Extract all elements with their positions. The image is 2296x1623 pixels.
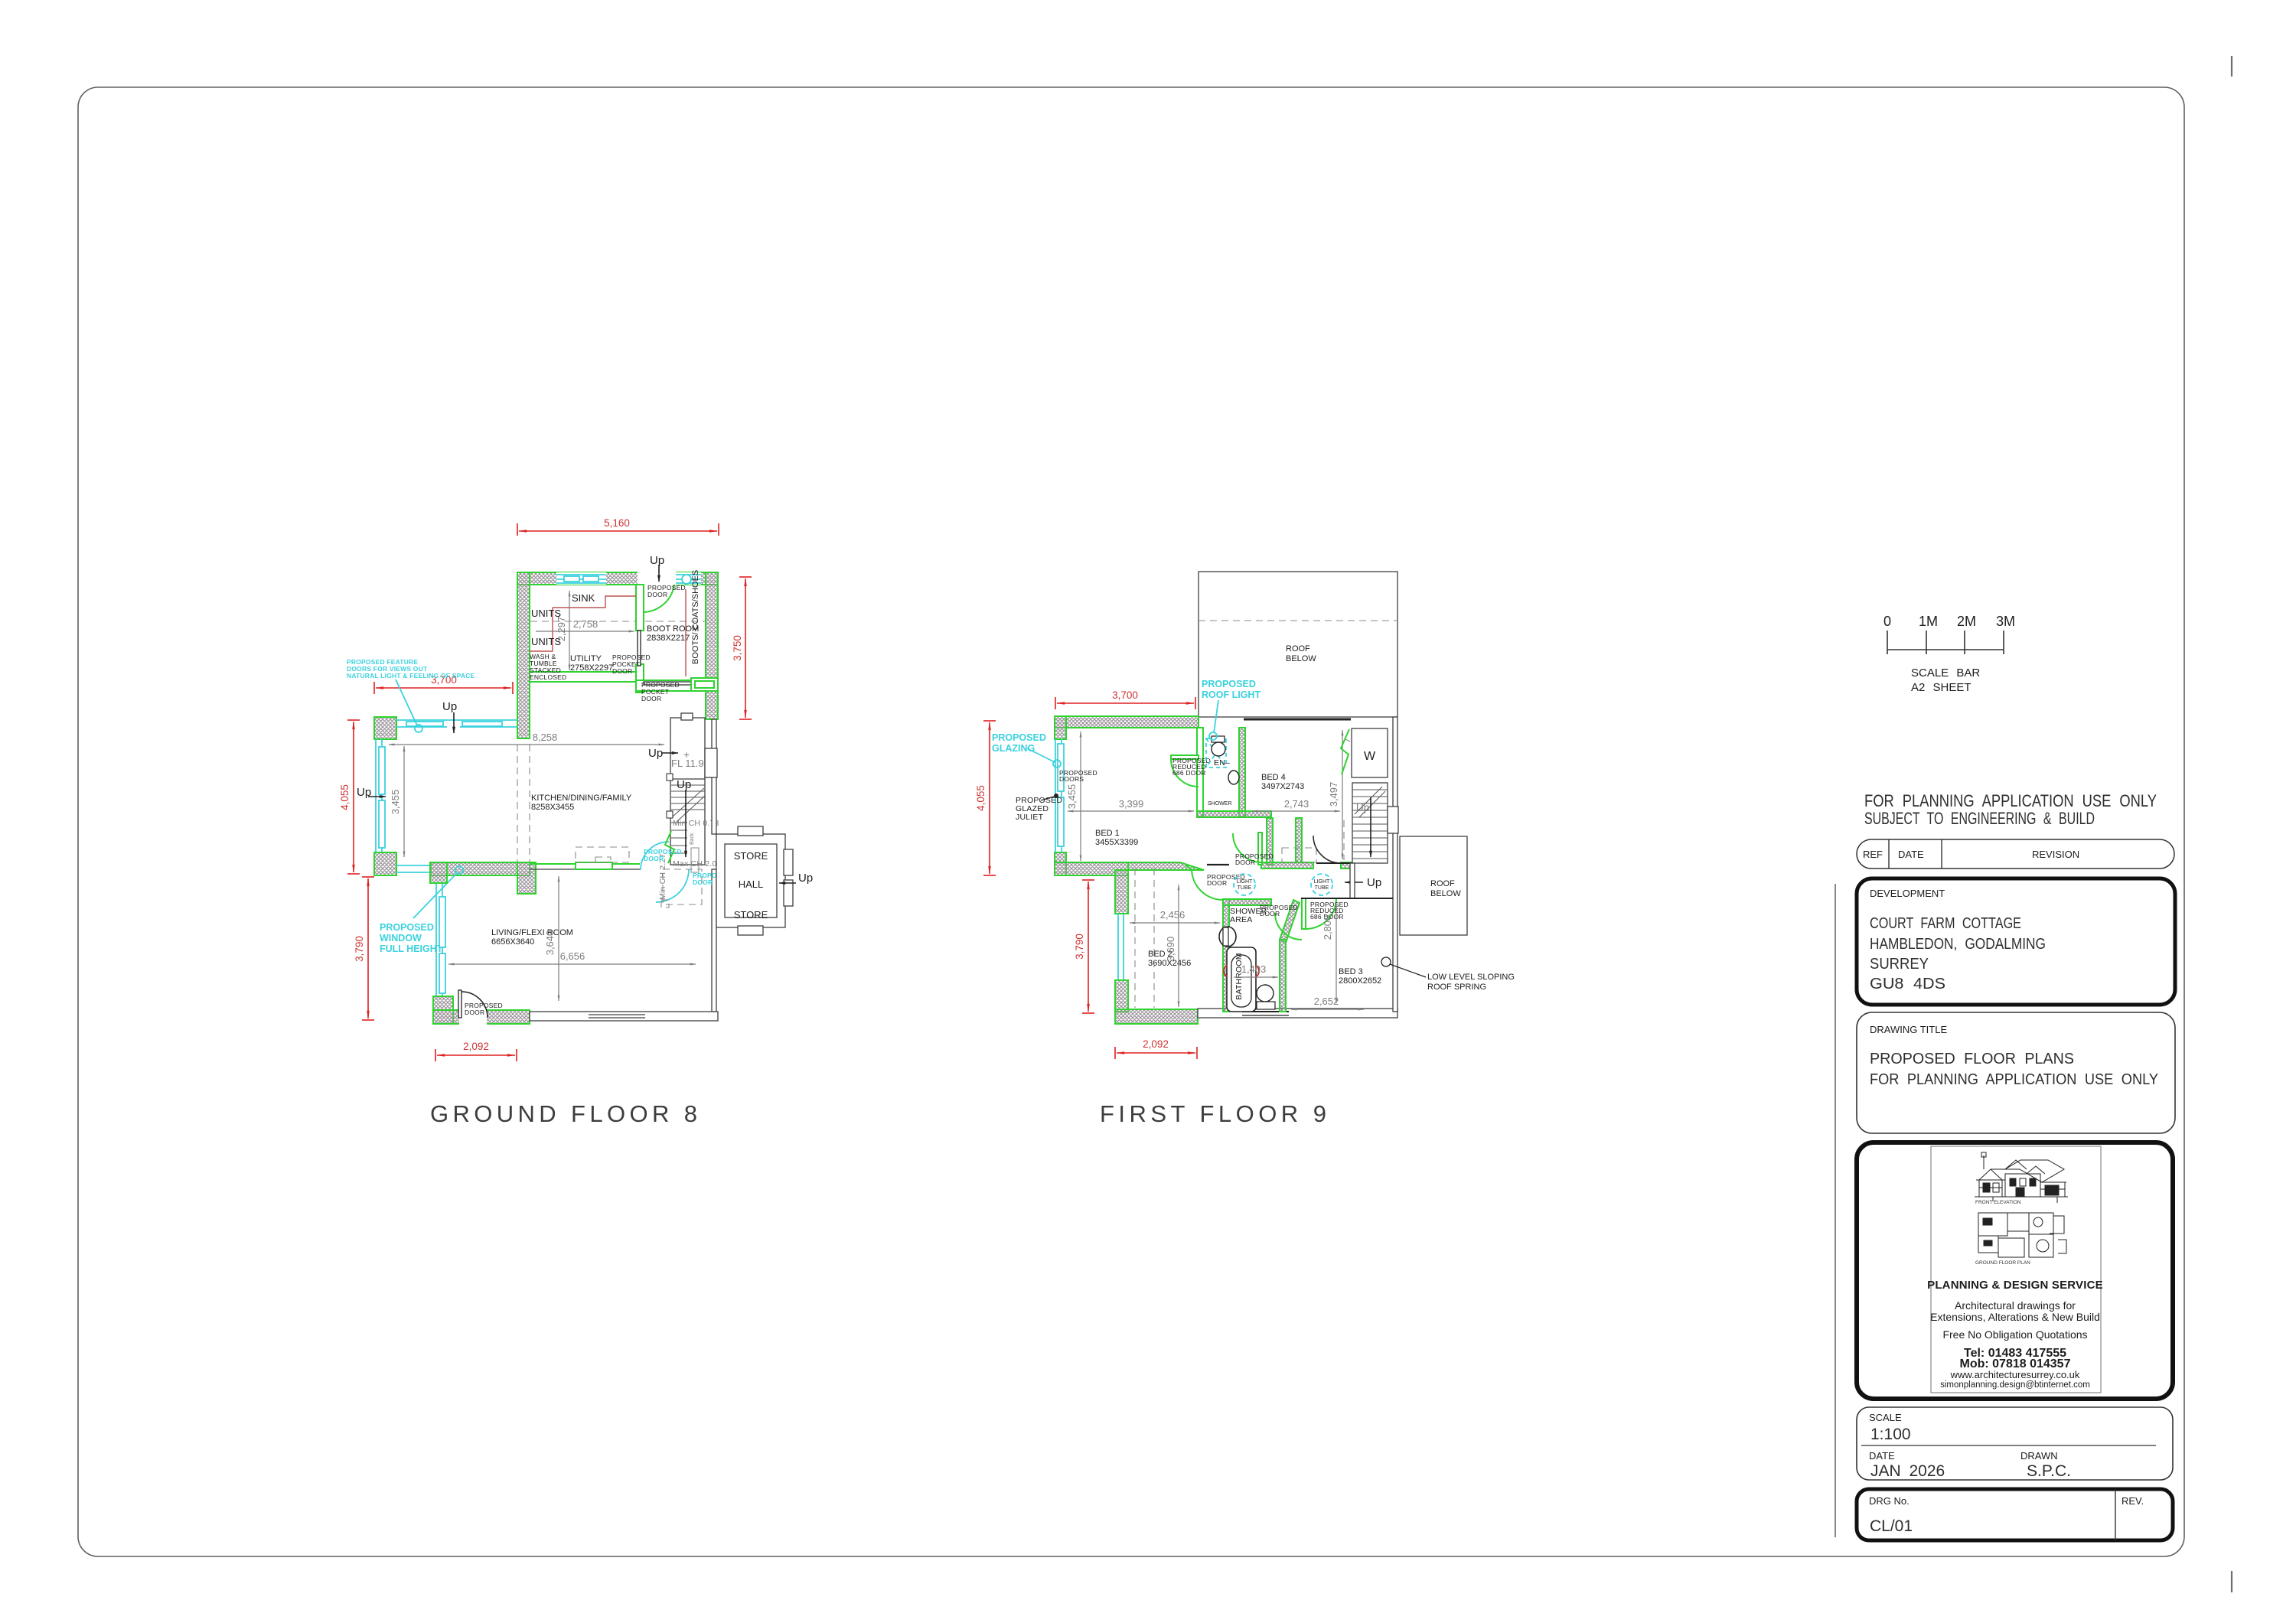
green zigzag door	[665, 831, 674, 863]
svg-text:REVISION: REVISION	[2032, 849, 2079, 860]
logo house elevation art	[1975, 1152, 2068, 1203]
en suite walls	[1197, 728, 1203, 816]
utility gray dims	[569, 591, 570, 670]
svg-text:Max CH 2.00: Max CH 2.00	[673, 859, 721, 869]
title block left rule	[1835, 884, 1836, 1537]
svg-text:Extensions, Alterations & New: Extensions, Alterations & New Build	[1930, 1311, 2100, 1323]
svg-text:SINK: SINK	[572, 592, 595, 604]
svg-text:Up: Up	[442, 700, 457, 713]
door bed2	[1192, 869, 1223, 900]
svg-text:3,399: 3,399	[1119, 798, 1144, 810]
red dim 2,092	[1115, 1047, 1197, 1059]
kitchen bottom wall green	[431, 862, 530, 875]
logo box	[1857, 1142, 2173, 1399]
svg-text:2,092: 2,092	[463, 1041, 489, 1052]
svg-text:simonplanning.design@btinterne: simonplanning.design@btinternet.com	[1940, 1380, 2090, 1390]
bed2 bottom wall	[1115, 1009, 1198, 1024]
svg-text:DRAWING TITLE: DRAWING TITLE	[1870, 1024, 1947, 1035]
living top wall thin	[530, 863, 640, 865]
svg-text:ROOF SPRING: ROOF SPRING	[1427, 983, 1486, 992]
svg-text:8258X3455: 8258X3455	[531, 803, 574, 812]
svg-text:ROOF: ROOF	[1430, 879, 1455, 888]
svg-text:PLANNING & DESIGN SERVICE: PLANNING & DESIGN SERVICE	[1927, 1279, 2103, 1292]
svg-text:4,055: 4,055	[975, 785, 987, 811]
door gap top wall	[638, 572, 676, 585]
living door	[458, 990, 461, 1018]
svg-text:LIGHT: LIGHT	[1314, 879, 1330, 885]
svg-text:Up: Up	[677, 778, 691, 791]
bed2 left wall upper	[1115, 870, 1128, 914]
svg-text:3497X2743: 3497X2743	[1261, 782, 1304, 791]
svg-text:LIVING/FLEXI ROOM: LIVING/FLEXI ROOM	[491, 928, 573, 937]
svg-text:3,455: 3,455	[390, 790, 401, 815]
dashed centreline across utility	[530, 621, 705, 622]
svg-text:1M: 1M	[1919, 614, 1938, 629]
svg-text:3,640: 3,640	[544, 930, 556, 956]
svg-text:HAMBLEDON, GODALMING: HAMBLEDON, GODALMING	[1870, 936, 2046, 953]
red counter lines utility	[530, 589, 686, 676]
revision bar	[1857, 839, 2174, 869]
svg-text:TUBE: TUBE	[1315, 885, 1329, 891]
svg-text:PROPOSED: PROPOSED	[992, 732, 1046, 743]
svg-text:ROOF LIGHT: ROOF LIGHT	[1202, 689, 1261, 700]
shower top wall	[1223, 899, 1271, 905]
drawing title box	[1857, 1012, 2175, 1133]
en suite door	[1171, 755, 1199, 759]
red dim 4,055	[983, 721, 996, 875]
svg-text:DOORS: DOORS	[1059, 775, 1084, 783]
svg-text:FRONT ELEVATION: FRONT ELEVATION	[1975, 1200, 2021, 1205]
svg-text:DOOR: DOOR	[612, 667, 632, 675]
svg-text:BED 3: BED 3	[1339, 967, 1363, 976]
corner tick bottom right	[2231, 1571, 2232, 1592]
svg-text:2,092: 2,092	[1143, 1038, 1169, 1050]
kitchen corner TL	[374, 717, 396, 739]
svg-text:3,497: 3,497	[1328, 782, 1339, 807]
cyan door lower	[656, 869, 689, 902]
svg-text:6656X3640: 6656X3640	[491, 937, 534, 947]
svg-text:LOW LEVEL SLOPING: LOW LEVEL SLOPING	[1427, 973, 1515, 982]
dashed projections in kitchen	[517, 745, 518, 862]
svg-text:DOOR: DOOR	[641, 695, 661, 702]
kitchen top window band	[396, 720, 517, 727]
stairwell	[670, 718, 705, 865]
svg-text:3M: 3M	[1996, 614, 2015, 629]
svg-text:DOOR: DOOR	[693, 878, 713, 886]
svg-text:DOOR: DOOR	[644, 855, 664, 862]
svg-text:DOOR: DOOR	[1235, 859, 1255, 866]
svg-text:2800X2652: 2800X2652	[1339, 976, 1381, 986]
red dim 3,790	[1082, 880, 1094, 1013]
bed1 left glazing	[1055, 716, 1066, 739]
svg-text:3,790: 3,790	[1074, 934, 1085, 960]
svg-text:3455X3399: 3455X3399	[1095, 838, 1138, 847]
svg-text:0: 0	[1883, 614, 1891, 629]
svg-text:2,800: 2,800	[1322, 915, 1333, 940]
svg-text:DRAWN: DRAWN	[2020, 1450, 2058, 1462]
en suite fixtures	[1206, 738, 1226, 768]
landing walls	[1316, 862, 1353, 864]
svg-text:REF: REF	[1863, 849, 1883, 860]
svg-text:NATURAL LIGHT & FEELING OF SPA: NATURAL LIGHT & FEELING OF SPACE	[347, 672, 475, 680]
svg-text:Up: Up	[648, 747, 663, 760]
svg-text:SUBJECT TO ENGINEERING & BUILD: SUBJECT TO ENGINEERING & BUILD	[1864, 809, 2095, 828]
svg-text:Up: Up	[650, 554, 664, 567]
svg-text:2,456: 2,456	[1160, 909, 1186, 921]
svg-text:SHOWER: SHOWER	[1208, 801, 1232, 807]
wall right of stairs	[712, 719, 716, 834]
roof below top rect	[1199, 572, 1397, 717]
svg-text:STORE: STORE	[734, 850, 768, 862]
svg-text:BOOTS/ COATS/SHOES: BOOTS/ COATS/SHOES	[691, 570, 700, 664]
top wall of bed4/W (existing under roof)	[1244, 719, 1351, 721]
svg-text:UTILITY: UTILITY	[570, 654, 602, 663]
pocket door leaf	[638, 631, 641, 666]
svg-text:SURREY: SURREY	[1870, 956, 1929, 973]
svg-text:Up: Up	[1367, 876, 1381, 889]
boot bottom window	[691, 678, 718, 691]
red dim 3,790 left lower	[362, 877, 374, 1020]
svg-text:FULL HEIGHT: FULL HEIGHT	[380, 943, 443, 954]
door to bed4 landing	[1258, 833, 1262, 865]
svg-text:ROOF: ROOF	[1286, 644, 1310, 653]
svg-text:4,055: 4,055	[339, 784, 351, 810]
shower area / bathroom left wall	[1223, 899, 1229, 1012]
svg-text:Architectural drawings for: Architectural drawings for	[1955, 1299, 2076, 1312]
svg-text:W: W	[1364, 750, 1376, 763]
svg-text:JAN 2026: JAN 2026	[1870, 1462, 1945, 1480]
svg-text:EN–: EN–	[1214, 758, 1230, 768]
drg no box	[1857, 1489, 2173, 1540]
svg-text:DATE: DATE	[1898, 849, 1924, 860]
svg-text:8,258: 8,258	[533, 732, 558, 743]
svg-text:GU8 4DS: GU8 4DS	[1870, 976, 1945, 992]
wall utility/boot	[636, 585, 644, 631]
svg-text:Free No Obligation Quotations: Free No Obligation Quotations	[1942, 1328, 2087, 1341]
svg-text:DOOR: DOOR	[465, 1009, 484, 1016]
svg-text:3,750: 3,750	[732, 635, 743, 661]
boot room bottom wall	[636, 680, 718, 691]
bathroom fixtures	[1219, 927, 1236, 947]
svg-text:www.architecturesurrey.co.uk: www.architecturesurrey.co.uk	[1950, 1369, 2080, 1380]
gray dims	[1080, 732, 1081, 861]
svg-text:BED 4: BED 4	[1261, 773, 1286, 782]
svg-text:COURT FARM COTTAGE: COURT FARM COTTAGE	[1870, 915, 2021, 932]
svg-text:A2 SHEET: A2 SHEET	[1911, 681, 1971, 694]
window utility top	[556, 575, 606, 583]
svg-text:DOOR: DOOR	[1207, 879, 1227, 887]
living bottom wall	[433, 1010, 530, 1024]
bed1 bottom wall	[1055, 862, 1128, 875]
living right wall	[712, 869, 716, 1012]
utility left wall	[517, 572, 530, 738]
kitchen corner BL	[374, 852, 396, 875]
svg-text:JULIET: JULIET	[1016, 813, 1044, 822]
svg-text:SCALE: SCALE	[1869, 1412, 1902, 1423]
svg-text:5,160: 5,160	[604, 517, 630, 529]
svg-text:2,743: 2,743	[1284, 798, 1309, 810]
svg-text:3,455: 3,455	[1066, 784, 1078, 810]
svg-text:Up: Up	[798, 872, 813, 885]
svg-text:DOOR: DOOR	[647, 591, 667, 598]
bed2 window	[1118, 914, 1124, 980]
svg-text:AREA: AREA	[1230, 915, 1252, 924]
bathroom right diagonal wall	[1280, 900, 1300, 943]
roof below right	[1400, 836, 1467, 935]
utility top wall	[517, 572, 718, 585]
red dim 3,700 kitchen top	[374, 682, 513, 694]
bed4 bottom wall	[1267, 818, 1273, 865]
living room left window	[436, 883, 442, 996]
W closet	[1352, 728, 1388, 777]
svg-text:LIGHT: LIGHT	[1237, 879, 1253, 885]
svg-text:2M: 2M	[1957, 614, 1976, 629]
svg-text:Back: Back	[690, 833, 695, 845]
svg-text:DATE: DATE	[1869, 1450, 1895, 1462]
low level sloping note	[1381, 957, 1391, 966]
shower door	[1275, 913, 1302, 940]
bed2 left wall lower	[1115, 980, 1128, 1012]
svg-text:S.P.C.: S.P.C.	[2027, 1462, 2071, 1480]
bed1 top wall	[1055, 716, 1199, 728]
light tubes	[1234, 874, 1332, 895]
svg-text:1,403: 1,403	[1241, 963, 1267, 975]
red dim 2,092 bottom	[435, 1049, 517, 1061]
logo mini floor plan art	[1978, 1213, 2066, 1257]
red dim 4,055 left	[347, 720, 360, 874]
dashed door zone	[663, 869, 702, 904]
svg-text:PROPOSED: PROPOSED	[380, 922, 434, 933]
svg-text:FOR PLANNING APPLICATION USE O: FOR PLANNING APPLICATION USE ONLY	[1864, 791, 2157, 810]
development box	[1857, 878, 2175, 1005]
red dim 3,750 right	[739, 577, 752, 719]
landing door (black)	[1313, 836, 1341, 863]
svg-text:HALL: HALL	[739, 878, 764, 890]
svg-text:PROPOSED: PROPOSED	[1202, 679, 1256, 689]
kitchen bottom window	[396, 865, 431, 872]
living corner TL	[430, 862, 447, 883]
svg-text:TUBE: TUBE	[1238, 885, 1252, 891]
svg-text:2,652: 2,652	[1314, 996, 1339, 1007]
stairs first floor	[1352, 783, 1388, 863]
utility right wall	[706, 572, 718, 719]
svg-text:BELOW: BELOW	[1286, 654, 1316, 663]
window2 top wall	[676, 572, 701, 585]
svg-text:BED 1: BED 1	[1095, 829, 1120, 838]
cyan door top (to stairs)	[641, 842, 669, 870]
svg-text:686 DOOR: 686 DOOR	[1172, 769, 1206, 777]
svg-text:ENCLOSED: ENCLOSED	[530, 673, 566, 681]
svg-text:FL 11.91: FL 11.91	[671, 758, 709, 769]
svg-text:STORE: STORE	[734, 909, 768, 921]
svg-text:BATHROOM: BATHROOM	[1234, 953, 1244, 1000]
svg-text:6,656: 6,656	[560, 950, 585, 962]
svg-text:KITCHEN/DINING/FAMILY: KITCHEN/DINING/FAMILY	[531, 794, 632, 803]
svg-text:GROUND FLOOR PLAN: GROUND FLOOR PLAN	[1975, 1260, 2030, 1266]
svg-text:FIRST FLOOR 9: FIRST FLOOR 9	[1100, 1100, 1326, 1127]
right outer wall	[1393, 717, 1397, 1012]
door to bed3	[1302, 898, 1306, 929]
scale bar	[1887, 631, 2004, 654]
svg-text:DEVELOPMENT: DEVELOPMENT	[1870, 888, 1945, 899]
living corner BL	[433, 996, 453, 1024]
svg-text:WINDOW: WINDOW	[380, 933, 422, 943]
corner tick top right	[2231, 56, 2232, 77]
kitchen left window band	[376, 739, 382, 852]
kitchen gray dims	[389, 744, 664, 745]
proposed door boot room	[638, 585, 642, 612]
red dim 3,700	[1055, 697, 1195, 709]
scale/date box	[1857, 1407, 2173, 1480]
svg-text:2758X2297: 2758X2297	[570, 663, 613, 673]
utility bottom wall	[530, 672, 636, 682]
svg-text:SCALE BAR: SCALE BAR	[1911, 666, 1980, 680]
dashed projections bed2	[1134, 869, 1136, 1008]
svg-text:3,700: 3,700	[1112, 689, 1138, 701]
svg-text:BELOW: BELOW	[1430, 889, 1461, 898]
svg-text:DRG No.: DRG No.	[1869, 1495, 1910, 1507]
svg-text:2,297: 2,297	[556, 617, 567, 642]
svg-text:2,758: 2,758	[573, 618, 598, 630]
svg-text:REV.: REV.	[2122, 1495, 2144, 1507]
svg-text:3,790: 3,790	[354, 936, 365, 962]
hall	[716, 834, 785, 927]
svg-text:2838X2217: 2838X2217	[647, 634, 690, 643]
svg-text:1:100: 1:100	[1870, 1426, 1911, 1443]
svg-text:CL/01: CL/01	[1870, 1517, 1913, 1535]
bottom wall black part	[1198, 1009, 1397, 1018]
svg-text:GROUND FLOOR 8: GROUND FLOOR 8	[430, 1100, 697, 1127]
svg-text:Up: Up	[1356, 802, 1369, 813]
svg-text:PROPOSED FLOOR PLANS: PROPOSED FLOOR PLANS	[1870, 1051, 2074, 1067]
red dim 5,160 top	[517, 523, 719, 536]
junction block	[517, 862, 536, 894]
svg-text:FOR PLANNING APPLICATION USE O: FOR PLANNING APPLICATION USE ONLY	[1870, 1071, 2158, 1088]
svg-text:3,690: 3,690	[1165, 937, 1176, 962]
corridor walls	[1207, 864, 1229, 865]
